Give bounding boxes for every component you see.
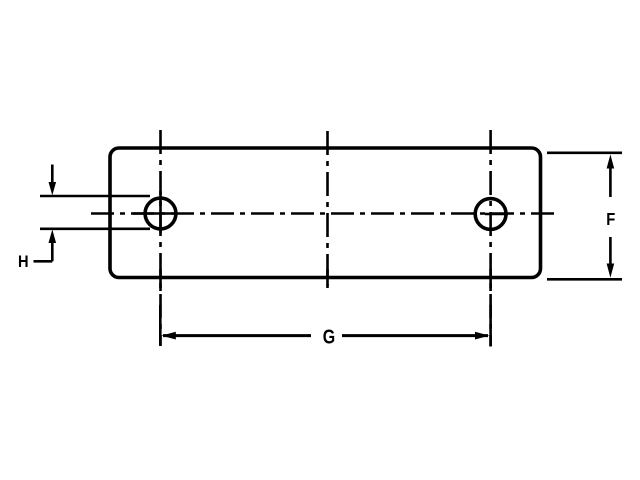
G extension line right — [489, 305, 492, 347]
hole right crosshair — [485, 213, 508, 216]
G arrow left — [162, 332, 176, 340]
centerline horizontal — [91, 212, 557, 215]
G dimension line — [163, 334, 488, 337]
centerline vertical left — [159, 130, 162, 346]
F arrow up — [607, 154, 615, 168]
plate outline — [110, 148, 541, 278]
F extension line top — [547, 152, 622, 155]
centerline left bottom tick — [159, 269, 162, 291]
H leader — [34, 260, 53, 263]
hole left — [145, 198, 176, 229]
centerline middle bottom tick — [326, 269, 329, 286]
F extension line bottom — [547, 278, 622, 281]
F arrow down — [607, 264, 615, 278]
hole right — [475, 199, 506, 230]
centerline right bottom tick — [489, 269, 492, 291]
F dimension line — [609, 166, 612, 267]
centerline vertical right — [489, 130, 492, 346]
G extension line left — [159, 305, 162, 346]
centerline vertical middle — [326, 131, 329, 288]
svg-text:F: F — [606, 210, 615, 230]
svg-text:G: G — [323, 324, 335, 347]
H arrow top — [49, 165, 57, 196]
H arrow bottom — [49, 229, 57, 261]
hole left crosshair — [133, 191, 178, 233]
H extension line bottom — [40, 228, 150, 231]
H extension line top — [40, 195, 150, 198]
svg-text:H: H — [18, 253, 29, 271]
G arrow right — [475, 332, 489, 340]
